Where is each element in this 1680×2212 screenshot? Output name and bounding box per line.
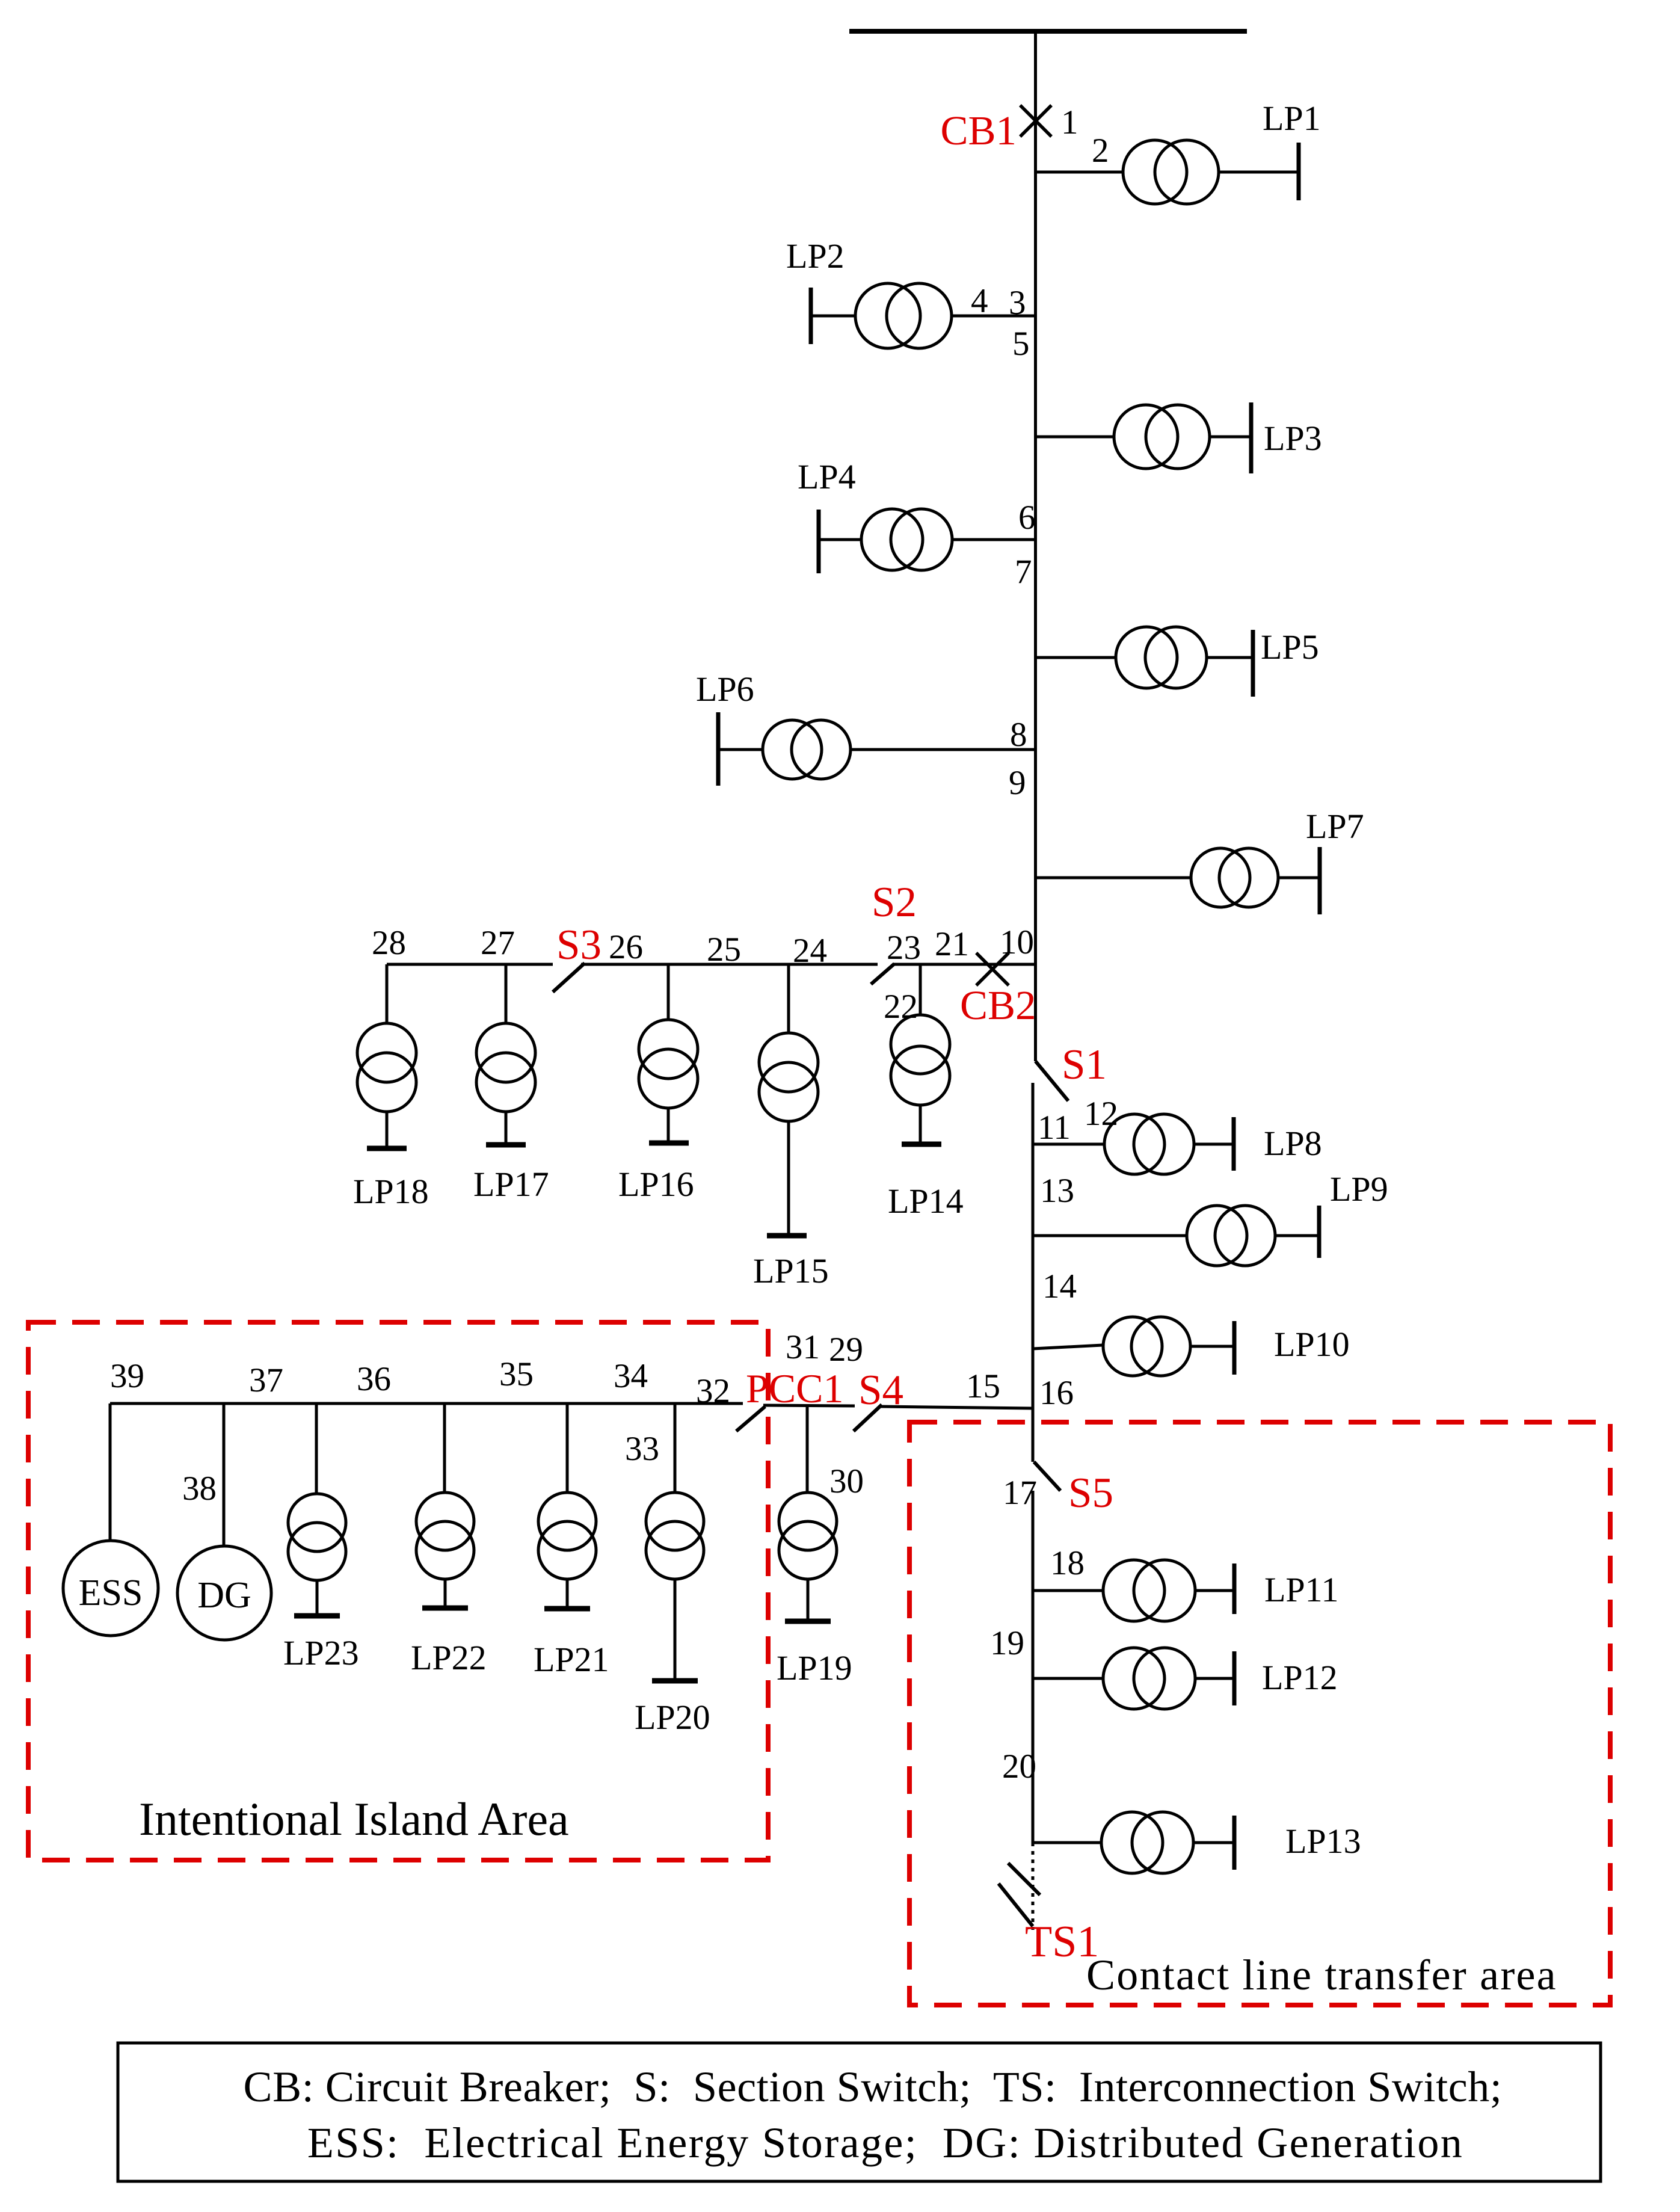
svg-text:27: 27 (481, 924, 515, 962)
switch blade S2 (871, 964, 894, 984)
circuit breaker CB2 (976, 953, 1009, 985)
wire node30 drop (806, 1406, 809, 1493)
wire S3 to S2 (581, 963, 878, 966)
wire LP6 transformer to node8 (851, 748, 1036, 751)
bus bar (source) (849, 29, 1247, 34)
svg-text:2: 2 (1092, 132, 1109, 170)
wire LP20 to ground (674, 1579, 677, 1681)
svg-text:CB: Circuit Breaker; S: Sect: CB: Circuit Breaker; S: Section Switch; … (243, 2063, 1502, 2111)
wire node34 drop (566, 1403, 569, 1493)
load bar LP7 (1318, 847, 1322, 914)
svg-text:CB2: CB2 (960, 982, 1036, 1028)
switch blade TS1 blade upper (1008, 1863, 1040, 1895)
wire node39 drop to ESS (109, 1403, 112, 1541)
wire LP21 to ground (566, 1579, 569, 1609)
ground bar LP19 (785, 1619, 831, 1624)
svg-text:Intentional Island Area: Intentional Island Area (139, 1793, 569, 1845)
switch blade TS1 blade lower (998, 1884, 1033, 1926)
switch blade PCC1 (736, 1406, 765, 1431)
wire LP2 load to transformer (811, 315, 855, 318)
transformer LP15 (759, 1033, 818, 1121)
wire LP4 load to transformer (819, 538, 861, 541)
circuit breaker CB1 (1020, 105, 1051, 137)
load bar LP9 (1317, 1206, 1322, 1258)
svg-text:ESS: Electrical Energy Storag: ESS: Electrical Energy Storage; DG: Dist… (307, 2119, 1463, 2167)
svg-text:LP8: LP8 (1264, 1124, 1322, 1163)
svg-text:S5: S5 (1068, 1470, 1113, 1517)
ground bar LP18 (367, 1146, 407, 1151)
svg-text:LP3: LP3 (1264, 419, 1322, 458)
transformer LP20 (646, 1493, 704, 1579)
svg-text:14: 14 (1042, 1268, 1077, 1305)
load bar LP5 (1251, 630, 1255, 697)
wire node2 to LP1 transformer (1036, 171, 1123, 174)
svg-text:10: 10 (1000, 923, 1034, 961)
wire TS1 dotted section (1032, 1843, 1035, 1930)
ground bar LP16 (649, 1141, 689, 1146)
svg-text:S1: S1 (1062, 1041, 1107, 1088)
svg-text:11: 11 (1038, 1109, 1071, 1147)
transformer LP21 (538, 1493, 596, 1579)
transformer LP11 (1103, 1560, 1195, 1621)
wire node26 drop (667, 964, 670, 1020)
wire node18 to LP11 transformer (1033, 1589, 1103, 1592)
svg-text:LP19: LP19 (777, 1648, 852, 1687)
svg-text:LP2: LP2 (786, 236, 845, 276)
transformer LP16 (639, 1020, 698, 1108)
transformer LP22 (416, 1493, 474, 1579)
wire node28 drop (386, 964, 389, 1023)
wire PCC1 to S4 (763, 1405, 855, 1406)
transformer LP4 (861, 509, 952, 570)
switch blade S5 (1034, 1462, 1060, 1491)
svg-text:4: 4 (971, 282, 988, 320)
svg-text:18: 18 (1050, 1544, 1085, 1582)
load bar LP8 (1232, 1117, 1236, 1171)
svg-text:LP9: LP9 (1330, 1169, 1388, 1209)
contact line transfer area box (909, 1422, 1610, 2005)
transformer LP18 (357, 1023, 416, 1112)
switch blade S1 (1036, 1061, 1069, 1101)
wire LP1 transformer to load (1219, 171, 1299, 174)
svg-text:LP21: LP21 (534, 1640, 609, 1679)
transformer LP14 (891, 1015, 950, 1105)
wire LP6 load to transformer (718, 748, 762, 751)
svg-text:20: 20 (1002, 1748, 1036, 1785)
load bar LP3 (1249, 402, 1254, 473)
wire node9 to LP7 transformer (1036, 876, 1192, 880)
svg-text:22: 22 (884, 988, 918, 1026)
wire LP16 to ground (667, 1108, 670, 1143)
svg-text:1: 1 (1061, 103, 1078, 141)
wire node20 to LP13 transformer (1033, 1841, 1101, 1844)
wire LP12 transformer to load (1195, 1677, 1234, 1680)
wire LP10 transformer to load (1190, 1345, 1234, 1348)
svg-text:LP6: LP6 (696, 670, 754, 709)
svg-text:37: 37 (249, 1361, 283, 1399)
svg-text:29: 29 (829, 1331, 863, 1369)
main feeder lower segment (1032, 1491, 1035, 1843)
wire node14 to LP10 transformer (1033, 1345, 1103, 1349)
svg-text:28: 28 (372, 924, 406, 962)
wire node38 drop to DG (223, 1403, 226, 1546)
transformer LP6 (763, 720, 851, 779)
legend box (118, 2043, 1601, 2181)
ground bar LP20 (652, 1678, 698, 1684)
load bar LP4 (817, 510, 821, 573)
transformer LP13 (1101, 1812, 1193, 1873)
svg-text:PCC1: PCC1 (746, 1366, 844, 1411)
svg-text:DG: DG (197, 1575, 251, 1616)
ground bar LP14 (902, 1142, 941, 1147)
wire node11 to LP8 transformer (1033, 1143, 1104, 1146)
svg-text:34: 34 (614, 1357, 648, 1395)
transformer LP3 (1114, 405, 1210, 469)
wire LP22 to ground (444, 1579, 447, 1608)
svg-text:5: 5 (1012, 325, 1030, 363)
DG source circle (177, 1546, 271, 1640)
wire LP5 transformer to load (1207, 656, 1253, 659)
svg-text:LP10: LP10 (1274, 1325, 1350, 1364)
load bar LP11 (1232, 1563, 1237, 1614)
wire LP18 to ground (386, 1112, 389, 1148)
svg-text:15: 15 (966, 1367, 1000, 1405)
svg-text:3: 3 (1009, 284, 1026, 322)
svg-text:33: 33 (625, 1430, 659, 1468)
svg-text:6: 6 (1018, 499, 1036, 537)
intentional island area box (28, 1322, 768, 1860)
svg-text:16: 16 (1039, 1374, 1074, 1412)
svg-text:36: 36 (357, 1360, 391, 1398)
main feeder upper segment (1034, 31, 1037, 1061)
transformer LP9 (1187, 1206, 1275, 1266)
wire node33 drop (674, 1403, 677, 1493)
svg-text:LP1: LP1 (1263, 99, 1321, 138)
main feeder middle segment (1032, 1083, 1035, 1462)
wire LP13 transformer to load (1194, 1841, 1234, 1844)
svg-text:CB1: CB1 (940, 108, 1017, 153)
svg-text:LP20: LP20 (635, 1698, 710, 1737)
svg-text:LP5: LP5 (1261, 627, 1319, 667)
ground bar LP22 (422, 1606, 468, 1611)
transformer LP8 (1104, 1114, 1194, 1174)
wire node13 to LP9 transformer (1033, 1234, 1187, 1237)
svg-text:35: 35 (499, 1355, 534, 1393)
svg-text:S4: S4 (858, 1367, 903, 1414)
load bar LP6 (716, 712, 721, 786)
wire node22 drop (919, 964, 922, 1015)
svg-text:LP15: LP15 (753, 1251, 829, 1290)
svg-text:23: 23 (887, 929, 921, 967)
wire node24 drop (787, 964, 790, 1033)
svg-text:LP13: LP13 (1285, 1822, 1361, 1861)
wire LP15 to ground (787, 1121, 790, 1236)
ground bar LP21 (544, 1606, 590, 1612)
svg-text:Contact line transfer area: Contact line transfer area (1086, 1951, 1557, 1999)
wire node5 to LP3 transformer (1036, 436, 1115, 439)
wire node28 to S3 (387, 963, 553, 966)
wire LP14 to ground (919, 1105, 922, 1144)
svg-text:12: 12 (1084, 1095, 1118, 1133)
wire LP17 to ground (505, 1112, 508, 1145)
svg-text:32: 32 (696, 1372, 730, 1410)
svg-text:9: 9 (1009, 764, 1026, 802)
transformer LP17 (476, 1023, 535, 1112)
svg-text:ESS: ESS (79, 1573, 143, 1613)
svg-text:LP11: LP11 (1264, 1570, 1339, 1609)
transformer LP23 (288, 1494, 346, 1580)
svg-text:31: 31 (786, 1328, 820, 1366)
transformer LP10 (1103, 1317, 1190, 1376)
wire LP19 to ground (807, 1579, 810, 1621)
wire node23 to node10 feeder (893, 963, 1036, 966)
svg-text:26: 26 (609, 928, 643, 966)
svg-text:S3: S3 (556, 922, 602, 969)
wire node35 drop (443, 1403, 446, 1493)
svg-text:21: 21 (935, 925, 969, 963)
load bar LP10 (1232, 1321, 1237, 1375)
transformer LP1 (1123, 140, 1219, 204)
svg-text:LP23: LP23 (283, 1633, 359, 1672)
wire LP7 transformer to load (1278, 876, 1320, 880)
svg-text:LP12: LP12 (1262, 1658, 1338, 1697)
wire node36 drop (315, 1403, 318, 1494)
load bar LP13 (1232, 1816, 1237, 1870)
ground bar LP17 (486, 1142, 526, 1148)
load bar LP2 (809, 288, 813, 344)
wire node7 to LP5 transformer (1036, 656, 1116, 659)
switch blade S3 (553, 963, 585, 992)
svg-text:25: 25 (707, 931, 741, 969)
svg-text:LP14: LP14 (888, 1181, 964, 1221)
ground bar LP15 (767, 1233, 807, 1239)
svg-text:24: 24 (793, 932, 827, 970)
svg-text:LP17: LP17 (473, 1165, 549, 1204)
svg-text:38: 38 (182, 1470, 217, 1508)
wire node19 to LP12 transformer (1033, 1677, 1103, 1680)
svg-text:30: 30 (829, 1462, 864, 1500)
svg-text:LP7: LP7 (1306, 807, 1364, 846)
svg-text:S2: S2 (872, 879, 917, 926)
svg-text:7: 7 (1015, 553, 1032, 591)
svg-text:LP22: LP22 (411, 1638, 487, 1677)
svg-text:LP18: LP18 (353, 1172, 429, 1211)
load bar LP1 (1297, 143, 1301, 200)
load bar LP12 (1232, 1651, 1237, 1705)
svg-text:19: 19 (990, 1624, 1024, 1662)
ground bar LP23 (294, 1613, 340, 1619)
svg-text:8: 8 (1010, 716, 1027, 754)
wire LP11 transformer to load (1195, 1589, 1234, 1592)
switch blade S4 (854, 1405, 882, 1431)
transformer LP7 (1191, 848, 1278, 907)
transformer LP19 (779, 1493, 837, 1579)
wire node27 drop (505, 964, 508, 1023)
svg-text:39: 39 (110, 1357, 144, 1395)
ESS source circle (63, 1541, 158, 1636)
wire S4 to node16 feeder (881, 1406, 1033, 1408)
wire LP23 to ground (316, 1580, 319, 1616)
wire LP4 transformer to node6 (952, 538, 1036, 541)
wire LP3 transformer to load (1210, 436, 1251, 439)
transformer LP12 (1103, 1648, 1195, 1709)
wire LP9 transformer to load (1274, 1234, 1319, 1237)
island branch wire node39 to PCC1 (110, 1402, 743, 1405)
svg-text:LP16: LP16 (618, 1165, 694, 1204)
transformer LP2 (855, 283, 952, 348)
wire LP8 transformer to load (1194, 1143, 1234, 1146)
svg-text:13: 13 (1040, 1172, 1074, 1210)
svg-text:LP4: LP4 (798, 457, 856, 496)
transformer LP5 (1116, 627, 1207, 688)
wire LP2 transformer to node3 (952, 315, 1036, 318)
